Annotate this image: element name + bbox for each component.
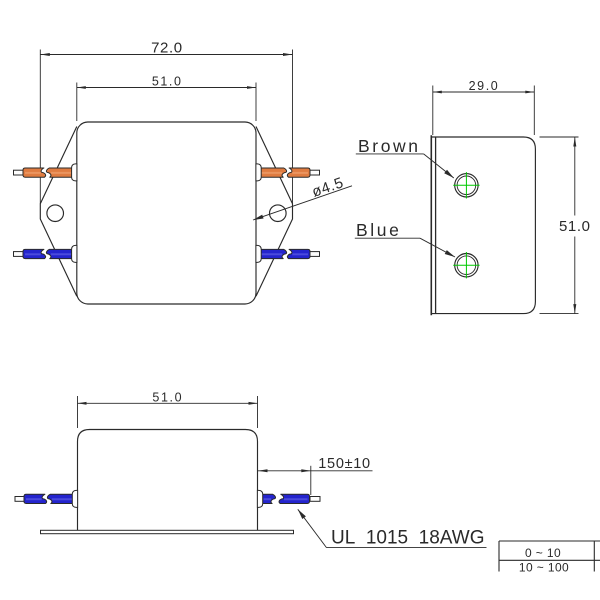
svg-text:UL 1015 18AWG: UL 1015 18AWG [331,528,484,549]
hole dia leader line [253,186,352,220]
dim 150 line [258,470,373,472]
bottom view right bushing [257,490,262,507]
side view bend line [435,137,437,314]
dim 51.0 side extension top [540,136,579,138]
dim 51.0 side arrow bottom [573,304,576,314]
dim 29.0 arrow right [525,91,534,94]
label Blue underline [355,237,420,239]
dim 51.0 bottom arrow right [249,402,258,405]
dim 51.0 arrow right [247,86,256,89]
svg-text:Brown: Brown [358,136,421,156]
front view brown wire left [14,170,24,175]
table row divider [499,559,600,561]
front view body [77,122,256,304]
svg-text:51.0: 51.0 [152,75,183,89]
label Brown underline [356,153,424,155]
front view blue wire right [259,249,320,258]
dim 51.0 side line lower [574,237,576,314]
dim 51.0 side extension bottom [540,313,579,315]
dim 51.0 bottom arrow left [78,402,87,405]
svg-text:72.0: 72.0 [151,40,183,57]
dim 29.0 arrow left [433,91,442,94]
label Blue arrow [445,250,455,257]
dim 150 arrow left [258,469,268,472]
hole dia leader arrow [253,215,264,220]
front view blue wire left bushing [72,245,77,262]
front view blue wire right bushing [256,245,261,262]
dim 51.0 bottom line [78,402,258,404]
svg-text:29.0: 29.0 [469,79,500,93]
dim 150 arrow right [301,469,311,472]
label UL leader [298,509,327,547]
side view hole brown (upper) [455,174,478,197]
dim 72.0 arrow left [40,53,50,56]
front view brown wire right [259,168,320,177]
dim 51.0 side arrow top [573,137,576,147]
label UL arrow [298,509,306,519]
front view brown wire right bushing [256,164,261,181]
dim 150 extension line [310,466,312,495]
dim 51.0 arrow left [77,86,86,89]
dim 72.0 extension line right [292,50,294,204]
side view hole blue (lower) [455,254,478,277]
svg-text:51.0: 51.0 [152,391,183,405]
front view brown wire left bushing [72,164,77,181]
dim 72.0 extension line left [39,50,41,204]
front view blue wire left [14,252,24,257]
bottom view left bushing [72,490,77,507]
dim 51.0 bottom extension left [77,396,79,428]
front view right flange [256,127,293,297]
mounting hole left [47,205,64,222]
dim 72.0 arrow right [283,53,293,56]
bottom view body [78,430,258,531]
table left border [498,541,500,572]
table column divider [593,541,595,572]
dim 51.0 bottom extension right [257,396,259,428]
dim 51.0 extension line right [255,83,257,122]
label Blue leader [420,238,455,257]
table clip (page edge) [495,572,600,600]
dim 29.0 extension left [432,86,434,136]
dim 29.0 line [433,91,535,93]
side view plate outline [431,137,535,314]
svg-text:51.0: 51.0 [559,218,591,235]
label Brown arrow [444,170,454,178]
dim 51.0 extension line left [76,83,78,122]
mounting hole right [270,205,287,222]
svg-text:0 ~ 10: 0 ~ 10 [525,546,561,560]
dim 51.0 side line upper [574,137,576,216]
table top border [499,540,600,542]
dim 72.0 line [40,54,292,56]
side view left edge thick [430,135,432,315]
svg-text:150±10: 150±10 [318,456,370,472]
front view left flange [40,127,77,297]
svg-text:Blue: Blue [356,220,401,240]
label Brown leader [424,154,454,178]
svg-text:ø4.5: ø4.5 [310,174,346,201]
bottom view blue wire left [15,497,25,502]
dim 29.0 extension right [533,86,535,136]
bottom view blue wire right [262,494,320,503]
label UL underline [327,547,487,549]
dim 51.0 line [77,87,256,89]
bottom view base plate [41,530,294,533]
